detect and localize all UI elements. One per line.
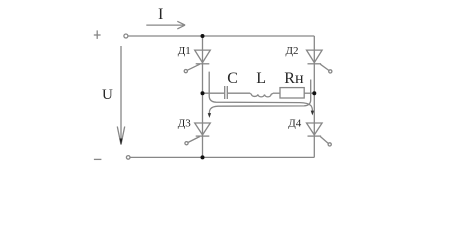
svg-text:Rн: Rн (284, 70, 304, 87)
svg-text:L: L (256, 70, 266, 87)
svg-text:I: I (158, 6, 163, 23)
svg-text:Д3: Д3 (178, 118, 192, 130)
svg-text:Д2: Д2 (286, 45, 299, 57)
svg-text:Д4: Д4 (288, 117, 302, 129)
svg-text:U: U (102, 87, 113, 103)
svg-text:Д1: Д1 (178, 45, 191, 57)
svg-text:C: C (227, 70, 238, 87)
